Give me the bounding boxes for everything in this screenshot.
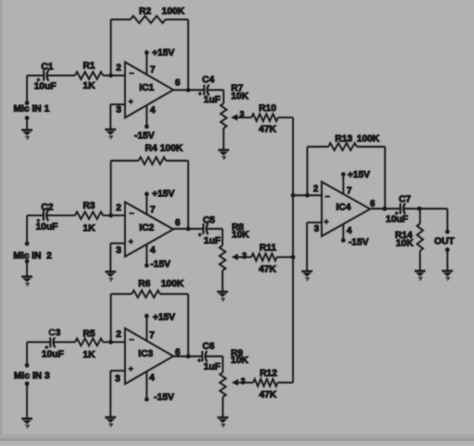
- svg-text:R3: R3: [83, 200, 95, 211]
- svg-text:+15V: +15V: [348, 170, 371, 181]
- svg-text:10K: 10K: [396, 238, 414, 249]
- svg-text:100K: 100K: [357, 134, 380, 145]
- svg-text:10uF: 10uF: [36, 222, 58, 233]
- svg-text:C5: C5: [203, 215, 216, 226]
- svg-text:IC1: IC1: [139, 83, 155, 94]
- svg-text:6: 6: [175, 78, 180, 89]
- svg-text:6: 6: [175, 347, 180, 358]
- svg-text:6: 6: [175, 218, 180, 229]
- svg-text:4: 4: [150, 105, 156, 116]
- svg-text:3: 3: [116, 245, 121, 256]
- svg-text:4: 4: [150, 245, 156, 256]
- svg-text:3: 3: [314, 224, 319, 234]
- svg-text:100K: 100K: [162, 6, 185, 17]
- svg-text:+15V: +15V: [152, 188, 175, 199]
- svg-text:C7: C7: [399, 194, 411, 205]
- svg-text:7: 7: [347, 185, 352, 195]
- svg-text:C3: C3: [48, 328, 60, 339]
- svg-text:2: 2: [313, 184, 318, 194]
- svg-text:R4: R4: [145, 143, 158, 154]
- svg-text:10uF: 10uF: [42, 349, 64, 360]
- svg-text:IC3: IC3: [138, 349, 153, 360]
- svg-text:2: 2: [116, 203, 121, 214]
- svg-text:-15V: -15V: [134, 131, 155, 142]
- svg-text:4: 4: [347, 226, 352, 236]
- svg-text:7: 7: [150, 205, 155, 216]
- svg-text:OUT: OUT: [434, 236, 454, 247]
- svg-text:-15V: -15V: [154, 392, 175, 403]
- svg-text:C1: C1: [41, 62, 54, 73]
- svg-text:1uF: 1uF: [204, 95, 221, 106]
- svg-text:10K: 10K: [231, 91, 249, 102]
- svg-text:1K: 1K: [83, 80, 95, 91]
- svg-text:2: 2: [116, 63, 121, 74]
- svg-text:R12: R12: [260, 368, 277, 379]
- svg-text:10uF: 10uF: [34, 81, 56, 92]
- svg-text:47K: 47K: [259, 389, 277, 400]
- svg-text:R2: R2: [139, 6, 151, 17]
- svg-text:R5: R5: [83, 328, 96, 339]
- svg-text:100K: 100K: [160, 143, 183, 154]
- svg-text:7: 7: [149, 330, 154, 341]
- svg-text:47K: 47K: [259, 124, 277, 135]
- svg-text:C4: C4: [202, 75, 215, 86]
- svg-text:IC2: IC2: [139, 223, 154, 234]
- svg-text:10K: 10K: [232, 229, 250, 240]
- svg-text:R11: R11: [259, 243, 277, 254]
- svg-text:C6: C6: [202, 341, 214, 352]
- svg-text:3: 3: [115, 374, 120, 385]
- svg-text:1K: 1K: [83, 223, 95, 234]
- svg-text:3: 3: [240, 110, 245, 119]
- svg-text:7: 7: [150, 65, 155, 76]
- svg-text:-15V: -15V: [349, 237, 370, 248]
- svg-text:100K: 100K: [161, 279, 184, 290]
- svg-text:R1: R1: [83, 60, 96, 71]
- svg-text:1uF: 1uF: [204, 361, 221, 372]
- svg-text:3: 3: [242, 251, 247, 260]
- svg-text:+15V: +15V: [152, 48, 175, 59]
- svg-text:-15V: -15V: [150, 259, 171, 270]
- svg-text:R13: R13: [335, 134, 352, 145]
- svg-text:1uF: 1uF: [204, 235, 221, 246]
- svg-text:R6: R6: [138, 279, 150, 290]
- svg-text:2: 2: [116, 329, 121, 340]
- svg-text:3: 3: [116, 105, 121, 116]
- svg-text:6: 6: [370, 199, 375, 209]
- svg-text:R10: R10: [259, 103, 276, 114]
- svg-text:C2: C2: [41, 202, 53, 213]
- svg-text:Mic IN 3: Mic IN 3: [14, 370, 50, 381]
- svg-text:Mic IN 2: Mic IN 2: [13, 250, 52, 261]
- svg-text:47K: 47K: [259, 264, 277, 275]
- svg-text:+15V: +15V: [153, 312, 176, 323]
- svg-text:10K: 10K: [231, 355, 249, 366]
- svg-text:1K: 1K: [83, 350, 95, 361]
- svg-text:Mic IN 1: Mic IN 1: [14, 104, 51, 115]
- svg-text:IC4: IC4: [336, 202, 352, 213]
- svg-text:4: 4: [149, 373, 155, 384]
- svg-text:10uF: 10uF: [386, 214, 408, 225]
- svg-text:3: 3: [241, 377, 246, 386]
